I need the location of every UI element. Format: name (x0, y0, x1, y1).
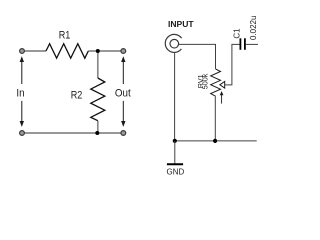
In arrow down (20, 101, 24, 127)
wire R1 to node TR (88, 50, 123, 52)
node TL (20, 49, 25, 54)
wire jack sleeve down (174, 53, 176, 141)
node BR (121, 131, 126, 136)
svg-text:R2: R2 (71, 89, 83, 101)
In arrow up (20, 56, 24, 84)
node junction A (R1/R2 top) (96, 49, 100, 53)
wire to GND symbol (174, 141, 176, 164)
svg-text:In: In (16, 88, 24, 100)
wire wiper to C1 (225, 44, 240, 85)
wire bottom (node BL to node BR) (22, 132, 123, 134)
capacitor C1 plate left (239, 38, 241, 50)
svg-text:INPUT: INPUT (168, 19, 194, 29)
resistor R1 (46, 44, 88, 59)
svg-text:R1: R1 (59, 29, 71, 41)
wire top left (node TL to R1) (22, 50, 46, 52)
Out arrow down (121, 101, 125, 127)
capacitor C1 plate right (244, 38, 246, 50)
potentiometer RV1 zigzag (211, 69, 221, 96)
svg-text:500k: 500k (201, 73, 210, 89)
connector J1 input jack inner circle (170, 39, 179, 48)
junction jack sleeve / ground (173, 139, 177, 143)
resistor R2 (91, 78, 105, 121)
ground GND bar (167, 163, 183, 165)
wire R2 to bottom (97, 121, 99, 133)
potentiometer RV1 wiper triangle (220, 82, 225, 89)
node TR (121, 49, 126, 54)
wire ground bus (175, 140, 257, 142)
junction pot bottom / ground (213, 139, 217, 143)
connector J1 input jack outer ring (165, 34, 181, 52)
node junction B (R2 bottom) (95, 131, 99, 135)
potentiometer RV1 adjust arrow (220, 91, 224, 104)
wire jack tip to pot (179, 44, 216, 69)
Out arrow up (121, 56, 125, 84)
wire pot bottom down (214, 96, 216, 141)
wire C1 right stub (246, 43, 258, 45)
svg-text:0.022u: 0.022u (249, 16, 258, 40)
wire node A down to R2 (97, 51, 99, 78)
svg-text:GND: GND (167, 167, 185, 177)
svg-text:Out: Out (115, 87, 131, 99)
svg-text:C1: C1 (233, 28, 242, 39)
node BL (20, 131, 25, 136)
